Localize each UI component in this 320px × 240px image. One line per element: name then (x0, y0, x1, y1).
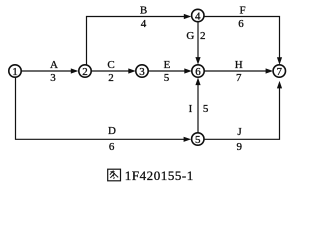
wire D 1-5 (16, 77, 185, 139)
wire I 5-6 (197, 84, 199, 133)
node 2 (79, 65, 91, 77)
svg-text:C: C (107, 59, 114, 71)
svg-text:5: 5 (203, 103, 209, 115)
arrowhead F into node 7 (277, 57, 282, 64)
svg-text:5: 5 (195, 134, 201, 146)
wire C 2-3 (91, 70, 129, 72)
svg-text:1F420155-1: 1F420155-1 (125, 168, 194, 183)
node 5 (192, 133, 204, 145)
svg-text:G: G (186, 30, 194, 42)
svg-text:4: 4 (195, 10, 201, 22)
svg-text:9: 9 (237, 141, 243, 153)
svg-text:D: D (108, 125, 116, 137)
node 7 (273, 65, 285, 77)
node 3 (136, 65, 148, 77)
svg-text:6: 6 (238, 18, 244, 30)
wire A 1-2 (21, 70, 72, 72)
node 1 (9, 65, 21, 77)
svg-text:7: 7 (236, 72, 242, 84)
wire H 6-7 (204, 70, 267, 72)
arrowhead C into node 3 (128, 68, 136, 73)
svg-text:J: J (237, 126, 242, 138)
arrowhead B into node 4 (184, 14, 192, 19)
svg-text:H: H (235, 59, 243, 71)
svg-text:F: F (239, 4, 245, 16)
svg-text:3: 3 (50, 72, 56, 84)
arrowhead I into node 6 (195, 78, 200, 86)
arrowhead J into node 7 (277, 81, 282, 89)
arrowhead D into node 5 (184, 137, 192, 142)
svg-text:7: 7 (277, 66, 283, 78)
wire J 5-7 (204, 88, 280, 140)
svg-text:A: A (50, 59, 58, 71)
wire G 4-6 (197, 22, 199, 59)
svg-text:5: 5 (164, 72, 170, 84)
arrowhead G into node 6 (195, 57, 200, 65)
svg-text:E: E (164, 59, 171, 71)
arrowhead A into node 2 (71, 68, 79, 73)
svg-text:B: B (140, 4, 147, 16)
caption glyph 图 (108, 169, 121, 181)
wire B 2-4 (87, 17, 186, 65)
svg-text:I: I (189, 103, 193, 115)
svg-text:3: 3 (139, 66, 145, 78)
svg-text:2: 2 (108, 72, 114, 84)
svg-text:6: 6 (195, 66, 201, 78)
svg-text:6: 6 (109, 141, 115, 153)
arrowhead E into node 6 (184, 68, 192, 73)
svg-text:4: 4 (141, 18, 147, 30)
wire E 3-6 (148, 70, 185, 72)
svg-text:1: 1 (12, 66, 18, 78)
arrowhead H into node 7 (266, 68, 274, 73)
node 6 (192, 65, 204, 77)
svg-text:2: 2 (82, 66, 88, 78)
wire F 4-7 (204, 17, 280, 59)
svg-text:2: 2 (200, 30, 206, 42)
node 4 (192, 9, 204, 21)
